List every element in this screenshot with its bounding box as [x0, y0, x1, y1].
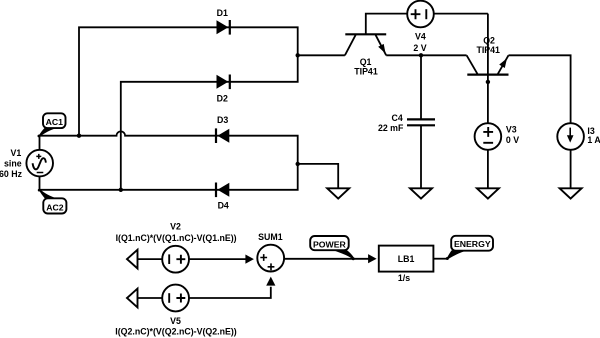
svg-text:V2: V2	[170, 222, 181, 232]
svg-text:V5: V5	[170, 316, 181, 326]
svg-text:60 Hz: 60 Hz	[0, 169, 23, 179]
svg-text:Q2: Q2	[483, 35, 495, 45]
svg-text:AC2: AC2	[46, 202, 64, 212]
svg-text:0 V: 0 V	[506, 135, 519, 145]
svg-text:TIP41: TIP41	[354, 67, 378, 77]
svg-text:SUM1: SUM1	[258, 232, 283, 242]
svg-text:I(Q2.nC)*(V(Q2.nC)-V(Q2.nE)): I(Q2.nC)*(V(Q2.nC)-V(Q2.nE))	[115, 326, 237, 336]
svg-text:2 V: 2 V	[413, 43, 426, 53]
svg-text:1 A: 1 A	[587, 135, 600, 145]
svg-text:C4: C4	[392, 113, 403, 123]
svg-text:V3: V3	[506, 125, 517, 135]
svg-text:V4: V4	[415, 31, 426, 41]
svg-text:POWER: POWER	[313, 239, 347, 249]
svg-text:D4: D4	[218, 201, 229, 211]
svg-text:1/s: 1/s	[398, 273, 410, 283]
svg-text:D2: D2	[217, 94, 228, 104]
svg-text:LB1: LB1	[398, 254, 415, 264]
svg-text:TIP41: TIP41	[476, 45, 500, 55]
svg-text:V1: V1	[11, 148, 22, 158]
svg-text:D1: D1	[217, 8, 228, 18]
svg-text:D3: D3	[217, 115, 228, 125]
svg-text:22 mF: 22 mF	[378, 123, 404, 133]
svg-text:ENERGY: ENERGY	[454, 239, 491, 249]
svg-text:I(Q1.nC)*(V(Q1.nC)-V(Q1.nE)): I(Q1.nC)*(V(Q1.nC)-V(Q1.nE))	[116, 233, 237, 243]
svg-text:AC1: AC1	[46, 117, 64, 127]
svg-text:sine: sine	[4, 159, 22, 169]
